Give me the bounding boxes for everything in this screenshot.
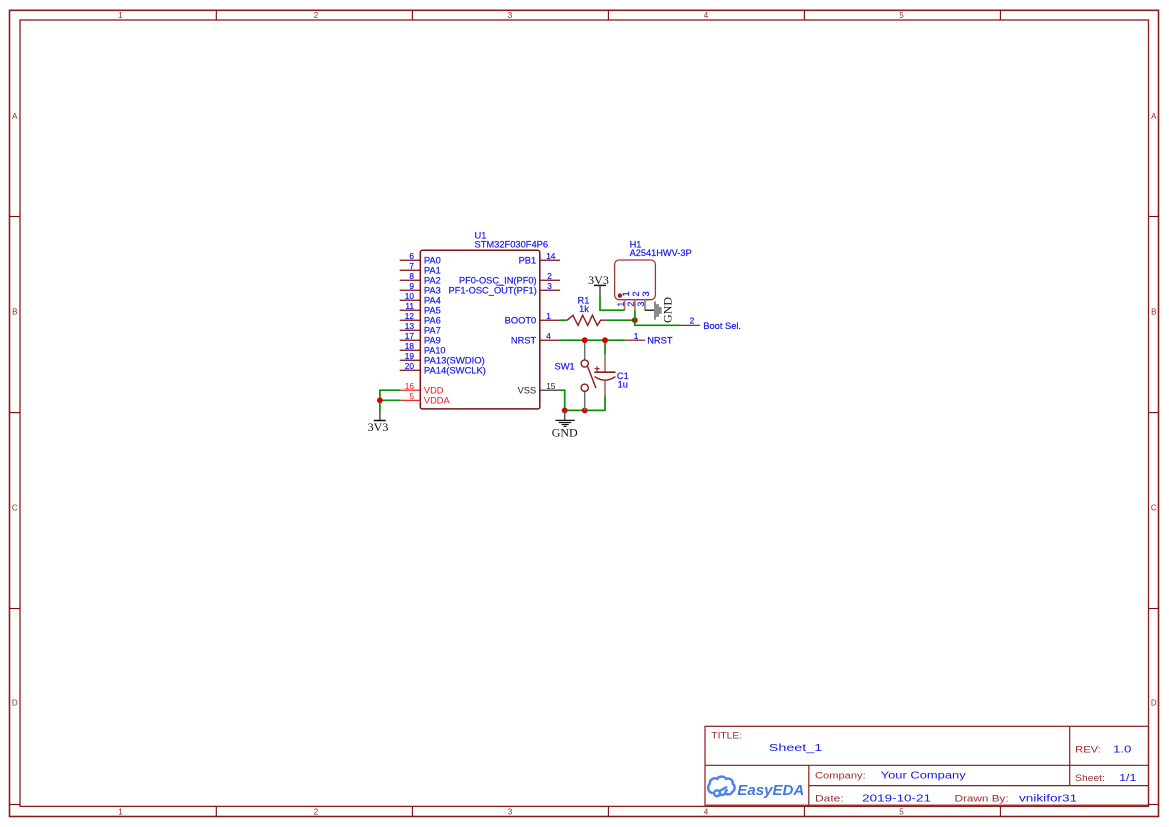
wire VDD rail — [380, 390, 401, 410]
svg-text:3: 3 — [636, 302, 646, 307]
C1 top plate — [594, 371, 615, 373]
svg-text:C: C — [12, 504, 18, 513]
svg-text:2: 2 — [314, 807, 319, 816]
U1 left pin names — [424, 256, 486, 376]
svg-text:PA5: PA5 — [424, 306, 441, 316]
junction ground rail left — [562, 408, 568, 414]
svg-text:VDD: VDD — [424, 386, 444, 396]
junction BOOT0 node — [632, 317, 638, 323]
H1 pin1 mark — [618, 293, 622, 297]
svg-text:6: 6 — [409, 251, 414, 261]
svg-text:Drawn By:: Drawn By: — [955, 794, 1009, 804]
svg-text:5: 5 — [409, 391, 414, 401]
U1 left pin numbers — [405, 251, 415, 371]
svg-text:12: 12 — [405, 311, 415, 321]
U1 VSS pin 15 line — [540, 389, 560, 391]
svg-text:PA1: PA1 — [424, 266, 441, 276]
svg-text:2: 2 — [631, 291, 641, 296]
svg-text:Sheet:: Sheet: — [1075, 773, 1105, 783]
capacitor C1 — [604, 355, 606, 396]
svg-text:18: 18 — [405, 341, 415, 351]
svg-text:TITLE:: TITLE: — [711, 731, 742, 741]
net port Boot Sel pin line — [681, 324, 700, 326]
svg-text:4: 4 — [704, 11, 709, 20]
svg-text:PF1-OSC_OUT(PF1): PF1-OSC_OUT(PF1) — [449, 286, 537, 296]
overline on OSC_OUT — [496, 284, 503, 286]
svg-text:BOOT0: BOOT0 — [505, 316, 537, 326]
C1 polarity plus — [595, 366, 600, 371]
svg-text:9: 9 — [409, 281, 414, 291]
svg-text:10: 10 — [405, 291, 415, 301]
H1 pin lines — [625, 300, 645, 311]
svg-text:PA9: PA9 — [424, 336, 441, 346]
svg-text:1/1: 1/1 — [1119, 773, 1137, 784]
svg-text:3: 3 — [508, 807, 513, 816]
svg-text:PA10: PA10 — [424, 346, 446, 356]
svg-text:VSS: VSS — [518, 386, 537, 396]
svg-text:11: 11 — [405, 301, 414, 311]
svg-text:PA3: PA3 — [424, 286, 441, 296]
svg-text:PA0: PA0 — [424, 256, 441, 266]
svg-text:3V3: 3V3 — [368, 420, 389, 434]
svg-text:2019-10-21: 2019-10-21 — [862, 793, 931, 804]
svg-text:3: 3 — [547, 281, 552, 291]
ground symbol GND bottom — [564, 410, 566, 420]
svg-text:PA14(SWCLK): PA14(SWCLK) — [424, 366, 486, 376]
svg-text:20: 20 — [405, 361, 415, 371]
U1 VDD pin 16 — [401, 389, 421, 391]
wire VSS to ground rail — [560, 390, 605, 410]
svg-text:REV:: REV: — [1075, 744, 1101, 754]
C1 bottom curved plate — [595, 377, 616, 381]
svg-text:1: 1 — [616, 302, 626, 307]
svg-text:16: 16 — [405, 381, 415, 391]
svg-text:B: B — [1151, 308, 1156, 317]
switch SW1 — [584, 340, 586, 410]
svg-text:Company:: Company: — [815, 771, 866, 781]
svg-text:A: A — [1151, 112, 1157, 121]
svg-text:1: 1 — [118, 807, 123, 816]
svg-text:1: 1 — [634, 331, 639, 341]
wire Boot Sel jog — [635, 320, 681, 325]
svg-text:A: A — [12, 112, 18, 121]
U1 right pin lines — [540, 260, 560, 340]
U1 VDDA pin 5 — [401, 399, 421, 401]
svg-text:vnikifor31: vnikifor31 — [1019, 793, 1078, 804]
frame column numbers top — [118, 11, 904, 20]
svg-text:1k: 1k — [579, 304, 589, 314]
svg-text:17: 17 — [405, 331, 415, 341]
svg-text:EasyEDA: EasyEDA — [737, 783, 804, 799]
svg-text:1: 1 — [546, 311, 551, 321]
svg-text:Your Company: Your Company — [881, 771, 966, 782]
svg-text:PB1: PB1 — [519, 256, 537, 266]
svg-text:3: 3 — [641, 291, 651, 296]
svg-text:2: 2 — [626, 302, 636, 307]
power flag 3V3 left — [379, 410, 381, 420]
svg-text:PA6: PA6 — [424, 316, 441, 326]
svg-text:1: 1 — [118, 11, 123, 20]
svg-text:19: 19 — [405, 351, 415, 361]
svg-text:2: 2 — [314, 11, 319, 20]
wire 3V3 to H1 pin1 — [600, 295, 625, 310]
H1 pin numbers rotated — [616, 302, 646, 307]
U1 left pin lines — [400, 260, 421, 370]
svg-text:2: 2 — [690, 315, 695, 325]
U1 right pin names — [449, 256, 537, 346]
IC U1 body — [420, 250, 540, 409]
frame row letters left — [12, 112, 18, 708]
svg-text:PA2: PA2 — [424, 276, 441, 286]
svg-text:4: 4 — [546, 331, 551, 341]
resistor R1 — [560, 319, 567, 321]
ground symbol GND right (rotated) — [654, 302, 662, 320]
svg-text:GND: GND — [660, 297, 674, 323]
svg-text:Boot Sel.: Boot Sel. — [703, 321, 741, 331]
svg-text:1.0: 1.0 — [1113, 744, 1132, 755]
svg-text:A2541HWV-3P: A2541HWV-3P — [630, 248, 692, 258]
svg-text:14: 14 — [546, 251, 556, 261]
svg-text:15: 15 — [546, 381, 556, 391]
svg-text:3: 3 — [508, 11, 513, 20]
frame row letters right — [1151, 112, 1157, 708]
EasyEDA logo cloud — [708, 777, 734, 797]
svg-text:1: 1 — [621, 291, 631, 296]
svg-text:5: 5 — [899, 11, 904, 20]
svg-text:PA7: PA7 — [424, 326, 441, 336]
frame column numbers bottom — [118, 807, 904, 816]
net port NRST pin line — [625, 339, 645, 341]
wire R1 to node — [606, 319, 635, 321]
wire H1 pin3 to GND — [645, 309, 655, 311]
svg-text:4: 4 — [704, 807, 709, 816]
svg-text:GND: GND — [552, 425, 578, 439]
U1 right pin numbers — [546, 251, 556, 341]
svg-text:C: C — [1151, 504, 1157, 513]
svg-text:STM32F030F4P6: STM32F030F4P6 — [475, 239, 549, 249]
header H1 body — [615, 260, 656, 300]
svg-text:D: D — [12, 699, 18, 708]
svg-text:B: B — [12, 308, 17, 317]
H1 pin names rotated — [621, 291, 651, 296]
wire C1 top — [604, 340, 606, 355]
svg-text:PA13(SWDIO): PA13(SWDIO) — [424, 356, 485, 366]
wire H1 pin2 to BOOT0 node — [634, 310, 636, 320]
svg-text:13: 13 — [405, 321, 415, 331]
svg-text:NRST: NRST — [511, 336, 537, 346]
svg-text:SW1: SW1 — [555, 361, 575, 371]
junction ground rail switch — [582, 408, 588, 414]
svg-text:Sheet_1: Sheet_1 — [769, 743, 823, 754]
svg-text:VDDA: VDDA — [424, 396, 451, 406]
junction NRST cap — [602, 337, 608, 343]
svg-text:Date:: Date: — [815, 794, 844, 804]
svg-text:D: D — [1151, 699, 1157, 708]
svg-text:8: 8 — [409, 271, 414, 281]
wire NRST net — [560, 339, 625, 341]
junction VDD node — [377, 397, 383, 403]
svg-text:PF0-OSC_IN(PF0): PF0-OSC_IN(PF0) — [459, 276, 537, 286]
svg-text:2: 2 — [547, 271, 552, 281]
title block borders — [705, 726, 1149, 805]
svg-text:1u: 1u — [618, 380, 628, 390]
svg-text:PA4: PA4 — [424, 296, 441, 306]
junction NRST switch — [582, 337, 588, 343]
svg-text:5: 5 — [899, 807, 904, 816]
svg-text:NRST: NRST — [647, 336, 673, 346]
svg-text:7: 7 — [409, 261, 414, 271]
